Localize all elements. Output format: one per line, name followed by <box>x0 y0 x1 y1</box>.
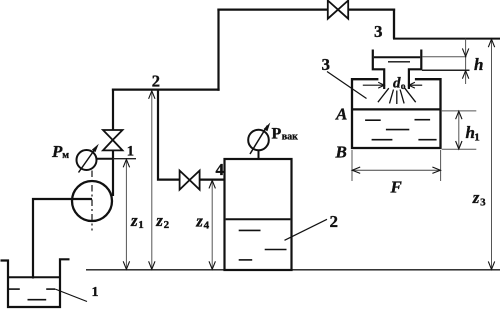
top reference line at outlet level <box>393 38 500 40</box>
pressure gauge Pm <box>77 144 99 173</box>
wire: gauge connection at point 1 <box>97 158 114 160</box>
svg-text:4: 4 <box>216 160 225 179</box>
pump U1 <box>72 171 112 231</box>
svg-text:z: z <box>130 211 138 230</box>
dimension z4 <box>209 180 215 269</box>
dimension d0 (nozzle diameter) <box>363 82 422 88</box>
svg-text:z: z <box>155 211 163 230</box>
dimension F (tank 3 bottom area) <box>352 150 441 181</box>
svg-text:2: 2 <box>330 212 339 231</box>
svg-text:м: м <box>62 150 69 161</box>
svg-text:B: B <box>335 143 347 162</box>
svg-text:3: 3 <box>480 197 486 209</box>
wire: riser to top run <box>217 9 219 91</box>
svg-text:h: h <box>474 55 483 74</box>
svg-text:1: 1 <box>474 131 480 143</box>
wire: branch from point 2 down to valve V3 <box>158 90 180 180</box>
wire: horizontal pipe at point 2 level <box>112 88 220 90</box>
valve V2 on top pipe <box>328 1 348 19</box>
wire: valve V2 to downcomer <box>348 9 395 11</box>
tank 2 (closed tank with vacuum gauge) <box>225 159 292 270</box>
svg-text:A: A <box>335 105 347 124</box>
dimension z2 <box>149 91 155 269</box>
svg-text:P: P <box>272 126 282 143</box>
ground line <box>86 269 500 271</box>
svg-text:P: P <box>51 142 63 161</box>
svg-text:4: 4 <box>204 220 210 232</box>
leader to tank 2 label <box>285 219 328 240</box>
wire: pump discharge riser to valve <box>112 151 114 197</box>
wire: downcomer to outlet point 3 <box>393 9 395 39</box>
valve V1 on pump discharge <box>103 130 123 150</box>
svg-text:z: z <box>472 188 480 207</box>
tank 1 (open reservoir, bottom left) <box>1 259 70 307</box>
node 1 level tick <box>113 158 136 160</box>
svg-text:1: 1 <box>92 285 99 300</box>
wire: valve V3 to tank 2 <box>200 179 225 181</box>
wire: suction pipe from tank 1 to pump <box>33 199 92 279</box>
dimension z3 <box>488 39 494 269</box>
water jet spray below nozzle <box>378 88 416 104</box>
svg-text:z: z <box>195 212 203 231</box>
dimension h (between cup level and cup bottom) <box>422 39 470 84</box>
leader to tank 1 label <box>55 289 87 302</box>
dimension z1 <box>123 159 129 269</box>
svg-text:3: 3 <box>374 22 383 41</box>
overflow cup (upper small tank) <box>373 50 422 90</box>
wire: top horizontal pipe to valve V2 <box>217 9 328 11</box>
svg-text:F: F <box>390 178 403 197</box>
vacuum gauge Pvac <box>248 123 270 160</box>
svg-text:1: 1 <box>138 219 144 231</box>
svg-text:1: 1 <box>127 143 134 159</box>
svg-text:вак: вак <box>282 132 298 143</box>
svg-text:2: 2 <box>164 219 170 231</box>
svg-text:o: o <box>401 82 406 92</box>
wire: valve V1 to horizontal run <box>112 89 114 131</box>
valve V3 before tank 2 <box>180 171 200 190</box>
tank 3 (receiver tank) <box>352 79 441 148</box>
dimension h1 (water depth in tank 3) <box>442 111 477 149</box>
svg-text:3: 3 <box>322 55 331 74</box>
svg-text:2: 2 <box>152 72 160 91</box>
